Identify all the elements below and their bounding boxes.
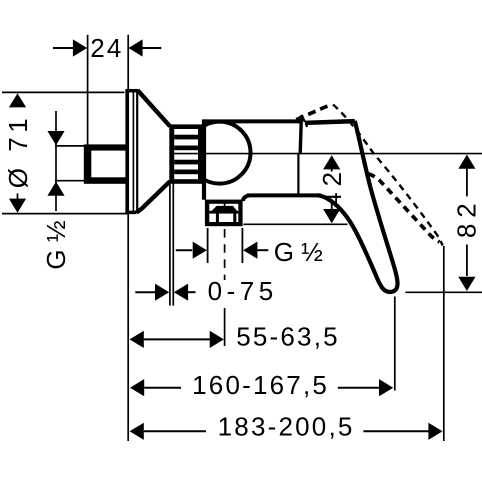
- dimension outlet G1/2 arrow left: [193, 242, 207, 259]
- lever back edge: [300, 116, 301, 154]
- dimension G1/2 wall arrow bottom: [47, 182, 64, 196]
- dimension 24 arrow right: [128, 39, 142, 56]
- extension line dia71 top: [2, 91, 125, 93]
- extension line wall face full height: [127, 35, 129, 441]
- dimension 42 arrow bottom: [323, 209, 340, 223]
- dimension outlet G1/2 tail left: [176, 249, 192, 251]
- knurled union nut: [169, 124, 203, 183]
- dimension 160-167,5 arrow left: [130, 379, 144, 396]
- dimension 160-167,5 line right: [338, 387, 379, 389]
- dimension 55-63,5 line: [144, 338, 210, 340]
- valve body bottom right corner: [243, 195, 249, 201]
- svg-text:55-63,5: 55-63,5: [236, 322, 340, 352]
- svg-text:183-200,5: 183-200,5: [218, 411, 355, 441]
- outlet hex facet right: [233, 212, 236, 222]
- dimension 42 arrow top: [323, 155, 340, 169]
- dimension 82 arrow top: [458, 155, 475, 169]
- svg-text:G ½: G ½: [41, 220, 71, 269]
- extension line 0-75 first: [169, 184, 171, 306]
- outlet hex nut shoulder: [209, 206, 239, 214]
- dimension 0-75 arrow left: [155, 284, 169, 301]
- escutcheon top corner: [125, 89, 138, 93]
- extension line lever tip dashed: [443, 246, 445, 441]
- dimension 0-75 arrow right: [174, 284, 188, 301]
- extension line outlet bottom for 42: [243, 223, 347, 225]
- wall pipe thread top line: [55, 145, 86, 147]
- dimension dia71 arrow top: [9, 93, 26, 107]
- svg-text:0-75: 0-75: [208, 276, 278, 306]
- dimension outlet G1/2 tail right: [257, 249, 268, 251]
- dimension 82 line lower: [466, 245, 468, 277]
- dimension 160-167,5 line left: [144, 387, 181, 389]
- knurl stripe 2: [174, 146, 198, 151]
- extension line lever tip solid: [394, 297, 396, 391]
- svg-text:G ½: G ½: [274, 237, 323, 267]
- dimension 183-200,5 line left: [144, 430, 206, 432]
- dimension G1/2 wall arrow top: [47, 131, 64, 145]
- wall pipe thread bottom line: [55, 180, 86, 182]
- extension line dia71 bottom: [2, 213, 127, 215]
- escutcheon bottom corner: [125, 211, 136, 215]
- valve body top edge: [204, 119, 301, 123]
- dimension 160-167,5 arrow right: [379, 379, 393, 396]
- escutcheon wall plate inner line 2: [136, 91, 138, 212]
- valve body bottom edge: [247, 193, 321, 197]
- centerline horizontal: [170, 153, 482, 155]
- valve body front face: [297, 154, 299, 194]
- dimension 24 tail right: [142, 47, 161, 49]
- lever raised position dashed back edge: [296, 104, 332, 120]
- svg-text:Ø 71: Ø 71: [3, 114, 33, 188]
- wall union block: [84, 144, 128, 183]
- lever raised position dashed underside: [368, 174, 439, 242]
- dimension 183-200,5 arrow left: [130, 423, 144, 440]
- svg-text:42: 42: [317, 166, 347, 207]
- reference line 82 bottom: [405, 291, 482, 293]
- dimension 55-63,5 arrow left: [130, 331, 144, 348]
- extension line outlet G1/2 left: [207, 228, 209, 263]
- outlet centerline solid lower: [224, 308, 226, 346]
- dimension 24 tail left: [53, 47, 74, 49]
- knurl stripe 1: [174, 135, 198, 140]
- extension line 24 left: [87, 35, 89, 146]
- lever raised position dashed top edge: [333, 105, 443, 246]
- svg-text:82: 82: [452, 197, 482, 238]
- escutcheon wall plate inner line 1: [132, 91, 134, 212]
- knurl stripe 4: [174, 170, 198, 175]
- svg-text:160-167,5: 160-167,5: [192, 370, 329, 400]
- dimension dia71 line stub: [17, 194, 19, 200]
- dimension 42 line stub bottom: [331, 204, 333, 211]
- lever top edge left stub: [305, 122, 308, 127]
- dimension 82 arrow bottom: [458, 277, 475, 291]
- ball flat / body left edge: [202, 119, 206, 199]
- escutcheon cone top slope: [138, 90, 170, 126]
- dimension 0-75 tail left: [135, 291, 155, 293]
- knurl stripe 3: [174, 160, 198, 165]
- dimension 82 line upper: [466, 169, 468, 197]
- extension line 0-75 second: [172, 184, 174, 306]
- ball joint housing: [189, 122, 251, 184]
- dimension 55-63,5 arrow right: [210, 331, 224, 348]
- outlet hex facet left: [216, 212, 219, 222]
- dimension 42 line stub top: [331, 169, 333, 172]
- dimension 183-200,5 arrow right: [428, 423, 442, 440]
- dimension dia71 arrow bottom: [9, 199, 26, 213]
- lever top edge: [305, 121, 355, 123]
- dimension 24 arrow left: [73, 39, 87, 56]
- dimension line G1/2 wall vertical: [55, 111, 57, 211]
- lever back edge flare: [302, 115, 305, 122]
- lever outline (front edge, tip, underside): [318, 121, 398, 292]
- outlet union G1/2 body: [205, 200, 243, 227]
- dimension 183-200,5 line right: [363, 430, 428, 432]
- svg-text:24: 24: [90, 33, 123, 63]
- dimension 0-75 tail right: [188, 291, 195, 293]
- outlet centerline dash inside union: [224, 202, 226, 208]
- extension line outlet G1/2 right: [241, 228, 243, 263]
- dimension outlet G1/2 arrow right: [243, 242, 257, 259]
- escutcheon wall plate outer edge: [125, 90, 128, 214]
- outlet centerline dashed: [224, 229, 226, 280]
- escutcheon cone bottom slope: [137, 181, 171, 212]
